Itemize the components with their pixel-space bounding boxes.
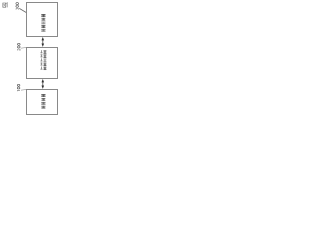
block 200 (storage apparatus box) [27, 48, 58, 79]
block 200 label text (rotated CJK column) [40, 50, 46, 70]
background [0, 0, 61, 120]
leader line for 100 [21, 88, 26, 91]
leader line for 300 [19, 8, 26, 12]
figure label 図1 [3, 3, 7, 8]
reference numeral 300 (rotated digits 0,0,3 top to bottom) [16, 3, 19, 10]
block 100 (terminal device box) [27, 90, 58, 115]
block 300 label text (rotated CJK column) [41, 14, 45, 31]
wire: double arrow between block 300 and block 200 [42, 37, 45, 47]
reference numeral 200 (rotated digits 0,0,2 top to bottom) [17, 43, 20, 50]
wire: double arrow between block 200 and block 100 [42, 79, 45, 89]
block 300 (management server box) [27, 3, 58, 37]
block 100 label text (rotated CJK column) [41, 94, 45, 108]
reference numeral 100 (rotated digits 0,0,1 top to bottom) [17, 84, 20, 91]
leader line for 200 [21, 46, 26, 49]
